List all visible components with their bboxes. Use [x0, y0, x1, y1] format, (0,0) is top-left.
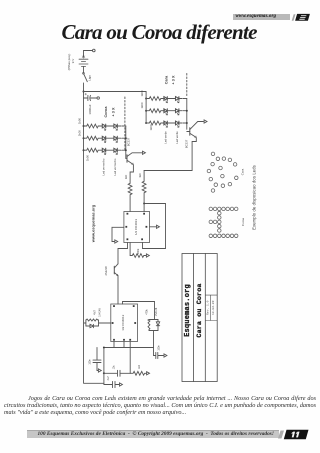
svg-text:BC337: BC337 — [127, 137, 131, 146]
svg-text:Led vermelho: Led vermelho — [101, 158, 105, 175]
svg-text:1k0: 1k0 — [138, 173, 142, 178]
svg-text:Coroa: Coroa — [104, 106, 108, 118]
svg-text:Led verde: Led verde — [163, 131, 167, 144]
svg-text:+ 3 X: + 3 X — [172, 75, 176, 84]
svg-text:13-02-09: 13-02-09 — [212, 300, 215, 315]
svg-text:1/2 CD4013: 1/2 CD4013 — [121, 314, 125, 330]
svg-text:Esquemas.org: Esquemas.org — [184, 284, 192, 337]
svg-text:100k: 100k — [136, 248, 140, 254]
svg-text:4u7: 4u7 — [107, 376, 110, 381]
svg-text:Cara: Cara — [241, 168, 245, 175]
svg-text:Cara ou Coroa: Cara ou Coroa — [196, 283, 204, 337]
svg-text:Led vermelho: Led vermelho — [113, 158, 117, 175]
svg-text:9 V: 9 V — [71, 59, 75, 64]
svg-text:100n: 100n — [158, 345, 161, 351]
svg-text:Exemplo de disposicao dos Leds: Exemplo de disposicao dos Leds — [251, 165, 256, 230]
svg-text:1N4148: 1N4148 — [99, 308, 102, 317]
svg-text:1k00: 1k00 — [140, 90, 144, 97]
svg-text:www.esquemas.org: www.esquemas.org — [90, 204, 95, 243]
svg-text:1k00: 1k00 — [77, 118, 81, 125]
svg-text:(Pilhas peq.): (Pilhas peq.) — [67, 54, 71, 71]
svg-text:1k0: 1k0 — [138, 364, 141, 369]
svg-text:BC337: BC337 — [185, 139, 189, 148]
svg-text:1k00: 1k00 — [149, 124, 153, 131]
svg-text:1k0: 1k0 — [124, 174, 128, 179]
svg-text:4M7: 4M7 — [94, 310, 97, 315]
svg-text:1000uF: 1000uF — [88, 104, 92, 114]
svg-text:Led verde: Led verde — [175, 131, 179, 144]
svg-text:1k00: 1k00 — [140, 102, 144, 109]
svg-text:Liga: Liga — [88, 75, 92, 81]
svg-text:100n: 100n — [89, 359, 92, 365]
svg-text:1k00: 1k00 — [77, 130, 81, 137]
svg-text:1N4148: 1N4148 — [155, 307, 158, 316]
svg-text:10u: 10u — [112, 365, 115, 370]
svg-text:470k: 470k — [145, 309, 148, 315]
svg-text:1k00: 1k00 — [85, 155, 89, 162]
svg-text:+ 3 X: + 3 X — [112, 107, 116, 116]
svg-text:Coroa: Coroa — [241, 218, 245, 227]
svg-text:Rev. 1.0: Rev. 1.0 — [207, 300, 210, 315]
svg-text:2N2218: 2N2218 — [104, 266, 108, 276]
svg-text:1/2 CD4013: 1/2 CD4013 — [134, 219, 138, 235]
svg-text:Cara: Cara — [165, 75, 169, 84]
